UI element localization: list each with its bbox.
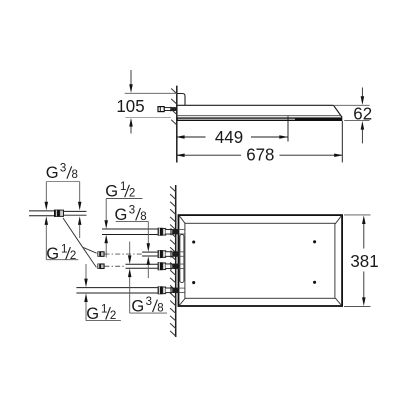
svg-text:G: G (105, 183, 118, 201)
svg-text:8: 8 (72, 169, 78, 181)
svg-text:3: 3 (146, 296, 152, 308)
svg-text:381: 381 (350, 251, 378, 271)
svg-text:G: G (46, 245, 59, 263)
svg-text:449: 449 (215, 127, 243, 147)
svg-text:1: 1 (61, 243, 67, 255)
svg-text:2: 2 (70, 250, 76, 262)
svg-text:3: 3 (60, 163, 66, 175)
svg-text:1: 1 (101, 303, 107, 315)
svg-text:3: 3 (129, 204, 135, 216)
svg-text:105: 105 (116, 96, 144, 116)
svg-text:62: 62 (353, 104, 372, 124)
svg-text:2: 2 (129, 188, 135, 200)
svg-text:678: 678 (246, 144, 274, 164)
svg-text:G: G (46, 164, 59, 182)
svg-text:1: 1 (120, 181, 126, 193)
